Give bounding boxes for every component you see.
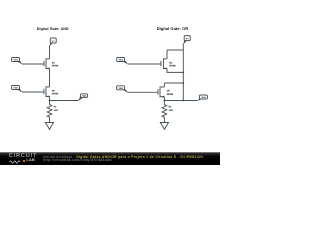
node Vin2 (left flag) [12, 86, 23, 93]
junction output node AND [49, 100, 51, 102]
wire Vin1 to M1 gate [22, 63, 44, 65]
node Vout (right flag) [197, 95, 208, 101]
junction rail M3 source [182, 72, 184, 74]
node V+ (left flag) [49, 38, 56, 47]
node Vin2 (right flag) [117, 86, 128, 93]
svg-text:Vout: Vout [82, 95, 87, 98]
node Vin1 (right flag) [117, 58, 128, 65]
wire M3 source to right rail [167, 68, 183, 72]
wire V+ to M1 drain [49, 46, 51, 59]
wire output node to Vout flag [164, 100, 197, 102]
transistor M1 [44, 58, 50, 69]
wire Vin1 to M3 gate [128, 63, 161, 65]
svg-text:Digital Gate: OR: Digital Gate: OR [157, 26, 189, 31]
svg-text:IRF508: IRF508 [167, 93, 174, 96]
transistor M2 [44, 86, 50, 97]
wire M1 source to M2 drain [49, 68, 51, 87]
wire M2 source to output node [49, 96, 51, 100]
svg-text:1 kΩ: 1 kΩ [54, 109, 58, 112]
transistor M3 [161, 58, 167, 69]
node Vout (left flag) [78, 94, 88, 101]
node Vin1 (left flag) [12, 58, 23, 65]
wire M4 drain stub [163, 83, 165, 87]
ground (left) [45, 123, 53, 130]
svg-text:Digital Gate: AND: Digital Gate: AND [37, 27, 69, 31]
svg-text:Vout: Vout [201, 96, 206, 99]
wire M4 source to output node [163, 97, 165, 101]
svg-text:V+: V+ [52, 40, 56, 43]
wire M4 drain to rail [164, 82, 183, 84]
svg-text:IRF508: IRF508 [169, 65, 176, 68]
wire right vertical rail [182, 50, 184, 101]
resistor R1 [47, 101, 52, 123]
wire Vin2 to M2 gate [22, 91, 44, 93]
svg-text:IRF508: IRF508 [52, 93, 59, 96]
junction output node OR [164, 100, 166, 102]
svg-text:1 kΩ: 1 kΩ [169, 109, 173, 112]
ground (right) [160, 123, 168, 130]
resistor R2 [162, 101, 167, 123]
wire M3 drain stub [166, 50, 168, 59]
node V+ (right flag) [183, 36, 190, 45]
wire V+ top rail to M3 drain [167, 44, 183, 50]
wire Vin2 to M4 gate [128, 91, 158, 93]
transistor M4 [158, 87, 164, 98]
junction rail meets output wire [182, 100, 184, 102]
svg-text:IRF508: IRF508 [52, 65, 59, 68]
wire output node to Vout flag [50, 100, 79, 102]
junction rail M4 drain [182, 82, 184, 84]
svg-text:V+: V+ [186, 38, 190, 41]
